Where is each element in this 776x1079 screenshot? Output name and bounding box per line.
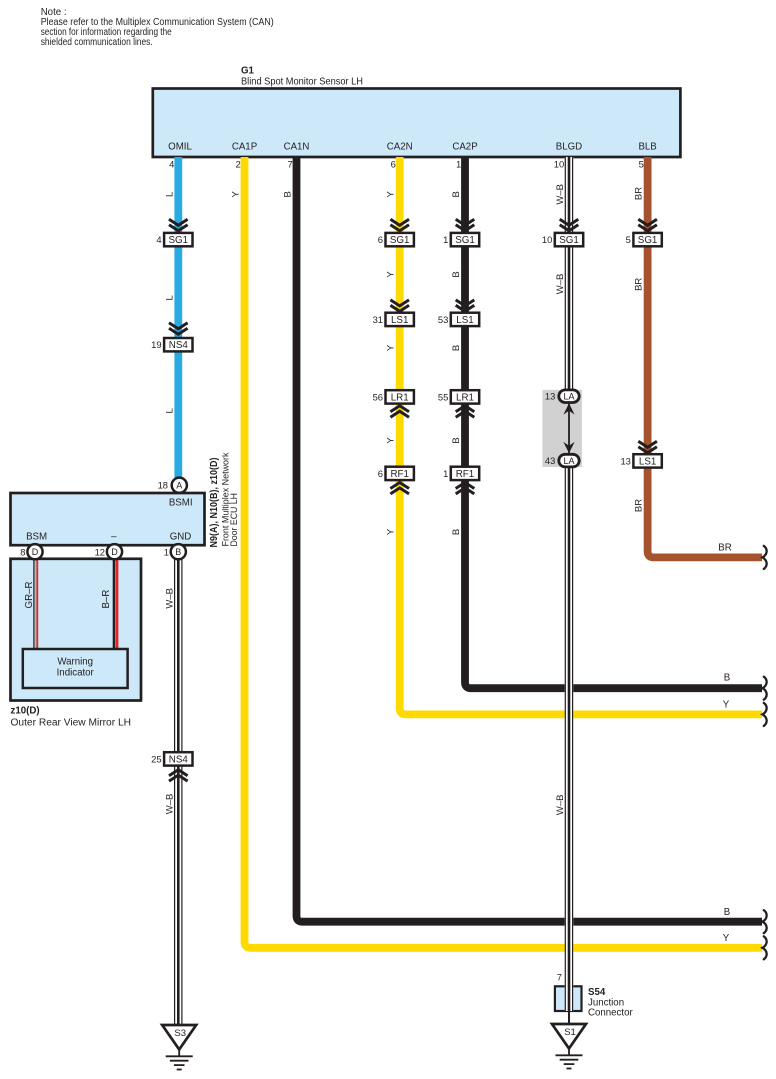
connector SG1 pin 4 (blue) [156, 233, 192, 246]
svg-text:LS1: LS1 [456, 315, 473, 326]
svg-text:B: B [451, 345, 462, 351]
svg-text:6: 6 [391, 159, 396, 170]
svg-text:SG1: SG1 [168, 235, 188, 246]
connector SG1 pin 1 (CA2P) [443, 233, 479, 246]
svg-text:19: 19 [151, 339, 161, 350]
svg-text:A: A [176, 480, 182, 490]
svg-text:BR: BR [634, 278, 645, 291]
arrow down CA2P to SG1 [456, 219, 475, 230]
svg-text:Y: Y [386, 271, 397, 278]
arrow down BLB to LS1 [638, 441, 657, 452]
shield block LA gray background [542, 390, 582, 467]
svg-text:–: – [111, 532, 117, 543]
arrow up CA2P below RF1 [456, 483, 475, 494]
svg-text:CA1N: CA1N [284, 142, 310, 153]
svg-text:B: B [451, 437, 462, 443]
svg-text:SG1: SG1 [638, 235, 658, 246]
arrow down CA2N to SG1 [390, 219, 409, 230]
svg-text:D: D [32, 547, 39, 557]
ECU box N9/N10/z10 Front Multiplex Network Door ECU LH [11, 493, 205, 545]
connector RF1 pin 6 (CA2N) [378, 467, 414, 480]
wire CA2N yellow (Y) vertical+horizontal to right edge [400, 157, 762, 714]
connector LS1 pin 31 (CA2N) [373, 313, 414, 326]
svg-text:13: 13 [545, 391, 555, 402]
svg-text:1: 1 [443, 234, 448, 245]
svg-text:56: 56 [373, 391, 383, 402]
svg-text:B: B [724, 673, 730, 684]
svg-text:OMIL: OMIL [168, 142, 192, 153]
svg-text:B: B [724, 907, 730, 918]
svg-text:6: 6 [378, 468, 383, 479]
svg-text:LS1: LS1 [639, 456, 656, 467]
svg-text:7: 7 [557, 972, 562, 983]
connector NS4 pin 19 (blue) [151, 338, 192, 351]
pin circle D (12) [107, 544, 122, 559]
svg-text:6: 6 [378, 234, 383, 245]
svg-text:GR–R: GR–R [24, 582, 35, 609]
svg-text:BR: BR [634, 187, 645, 200]
svg-text:SG1: SG1 [559, 235, 579, 246]
svg-text:31: 31 [373, 314, 383, 325]
ECU rotated caption N9(A), N10(B), z10(D) / Front Multiplex Network / Door ECU LH [209, 452, 239, 547]
ECU G1 box Blind Spot Monitor Sensor LH [153, 89, 681, 158]
ground S3 [162, 1025, 196, 1070]
connector LS1 pin 53 (CA2P) [438, 313, 479, 326]
svg-text:GND: GND [170, 532, 192, 543]
svg-text:CA2N: CA2N [387, 142, 413, 153]
off-page curl CA1P yellow [762, 936, 766, 959]
arrow up GND below NS4 [169, 770, 188, 781]
svg-text:5: 5 [626, 234, 631, 245]
svg-text:G1: G1 [241, 66, 255, 77]
svg-text:LA: LA [563, 391, 574, 401]
pin circle D (8) [27, 544, 42, 559]
svg-text:S3: S3 [174, 1028, 186, 1039]
pin circle B (1) GND [171, 544, 186, 559]
pin circle A (18) top of ECU box [172, 478, 187, 493]
svg-text:25: 25 [151, 753, 161, 764]
svg-text:Y: Y [386, 528, 397, 535]
svg-text:W–B: W–B [165, 588, 176, 609]
svg-text:W–B: W–B [555, 184, 566, 205]
svg-text:Indicator: Indicator [57, 668, 95, 679]
svg-text:LS1: LS1 [391, 315, 408, 326]
svg-text:RF1: RF1 [390, 469, 409, 480]
svg-text:CA1P: CA1P [232, 142, 257, 153]
connector SG1 pin 6 (CA2N) [378, 233, 414, 246]
off-page curl CA2N yellow [762, 703, 766, 726]
svg-text:8: 8 [20, 547, 25, 558]
svg-text:W–B: W–B [555, 274, 566, 295]
svg-text:W–B: W–B [165, 794, 176, 815]
svg-text:1: 1 [164, 547, 169, 558]
svg-text:CA2P: CA2P [452, 142, 477, 153]
svg-text:18: 18 [158, 480, 168, 491]
wire BLGD W-B lower segment through S54 [565, 467, 574, 1012]
shield inner thin wire between LA connectors [568, 402, 570, 453]
arrow up CA2N below LR1 [390, 406, 409, 417]
svg-text:Connector: Connector [588, 1008, 633, 1019]
wire OMIL blue (L) vertical [174, 157, 182, 479]
svg-text:B: B [175, 547, 181, 557]
svg-text:1: 1 [456, 159, 461, 170]
wire GND W-B upper segment [174, 560, 183, 753]
junction connector S54 box [555, 986, 582, 1011]
svg-text:53: 53 [438, 314, 448, 325]
svg-text:Y: Y [386, 437, 397, 444]
connector LR1 pin 55 (CA2P) [438, 390, 479, 403]
svg-text:RF1: RF1 [456, 469, 475, 480]
svg-text:Y: Y [723, 699, 730, 710]
svg-text:N9(A), N10(B), z10(D): N9(A), N10(B), z10(D) [209, 458, 220, 548]
svg-text:S54: S54 [588, 987, 606, 998]
svg-text:BLB: BLB [638, 142, 656, 153]
svg-text:LR1: LR1 [391, 392, 409, 403]
svg-text:Outer Rear View Mirror LH: Outer Rear View Mirror LH [11, 718, 132, 729]
svg-text:W–B: W–B [555, 795, 566, 816]
svg-text:43: 43 [545, 455, 555, 466]
arrow down on OMIL wire 2 [169, 323, 188, 334]
svg-text:BSMI: BSMI [169, 497, 193, 508]
connector LR1 pin 56 (CA2N) [373, 390, 414, 403]
svg-text:2: 2 [235, 159, 240, 170]
svg-text:10: 10 [542, 234, 552, 245]
wire CA1N black (B) vertical+horizontal to right edge [297, 157, 763, 922]
svg-text:Warning: Warning [57, 657, 93, 668]
svg-text:B–R: B–R [101, 590, 112, 609]
svg-text:55: 55 [438, 391, 448, 402]
svg-text:B: B [451, 529, 462, 535]
off-page curl CA1N black [762, 910, 766, 933]
svg-text:LR1: LR1 [456, 392, 474, 403]
svg-text:L: L [164, 295, 175, 300]
wire GND W-B lower segment [174, 766, 183, 1026]
wire CA1P yellow (Y) vertical+horizontal to right edge [245, 157, 763, 948]
svg-text:BLGD: BLGD [556, 142, 582, 153]
arrow down CA2N to LS1 [390, 300, 409, 311]
arrow down on OMIL wire [169, 219, 188, 230]
svg-text:Y: Y [386, 344, 397, 351]
svg-text:Note :Please refer to the Mult: Note :Please refer to the Multiplex Comm… [41, 7, 274, 48]
svg-text:1: 1 [443, 468, 448, 479]
svg-text:Y: Y [230, 190, 241, 197]
component box z10(D) Outer Rear View Mirror LH [11, 559, 142, 701]
svg-text:B: B [451, 271, 462, 277]
arrow up CA2N below RF1 [390, 483, 409, 494]
svg-text:13: 13 [620, 455, 630, 466]
ground S1 [552, 1024, 586, 1069]
svg-text:5: 5 [639, 159, 644, 170]
arrow down CA2P to LS1 [456, 300, 475, 311]
wire from S54 to ground S1 [568, 1011, 570, 1025]
svg-text:BR: BR [718, 542, 731, 553]
wire BLB brown (BR) vertical+horizontal to right edge [648, 157, 762, 557]
svg-text:4: 4 [169, 159, 174, 170]
connector LS1 pin 13 (BLB) [620, 454, 661, 467]
arrow down BLB to SG1 [638, 219, 657, 230]
svg-text:z10(D): z10(D) [11, 706, 40, 717]
shield arrowhead up [563, 403, 574, 414]
svg-text:SG1: SG1 [455, 235, 475, 246]
shield connector LA pin 13 oval [545, 390, 579, 403]
warning indicator box [23, 649, 128, 688]
shield arrowhead down [563, 442, 574, 453]
svg-text:7: 7 [287, 159, 292, 170]
svg-text:L: L [164, 192, 175, 197]
svg-text:LA: LA [563, 456, 574, 466]
svg-text:NS4: NS4 [169, 340, 189, 351]
svg-text:Door ECU LH: Door ECU LH [228, 493, 239, 547]
svg-text:Y: Y [386, 190, 397, 197]
svg-text:D: D [111, 547, 118, 557]
wire CA2P black (B) vertical+horizontal to right edge [465, 157, 762, 688]
svg-text:10: 10 [554, 159, 564, 170]
arrow up CA2P below LR1 [456, 406, 475, 417]
wire GR-R inside mirror (gray-red) [33, 560, 38, 649]
off-page curl BLB brown [762, 546, 766, 569]
svg-text:L: L [164, 408, 175, 413]
svg-text:12: 12 [95, 547, 105, 558]
svg-text:S1: S1 [564, 1027, 576, 1038]
svg-text:Blind Spot Monitor Sensor LH: Blind Spot Monitor Sensor LH [241, 77, 363, 88]
wire BLGD W-B upper segment [565, 157, 574, 391]
svg-text:Y: Y [723, 933, 730, 944]
svg-text:NS4: NS4 [169, 754, 189, 765]
connector NS4 pin 25 (GND) [151, 752, 192, 765]
shield connector LA pin 43 oval [545, 454, 579, 467]
connector SG1 pin 5 (BLB) [626, 233, 662, 246]
svg-text:B: B [451, 191, 462, 197]
connector RF1 pin 1 (CA2P) [443, 467, 479, 480]
connector SG1 pin 10 (BLGD) [542, 233, 583, 246]
wire B-R inside mirror (black-red) [113, 560, 119, 649]
svg-text:B: B [282, 191, 293, 197]
svg-text:BR: BR [634, 499, 645, 512]
off-page curl CA2P black [762, 677, 766, 700]
arrow down BLGD to SG1 [560, 219, 579, 230]
svg-text:SG1: SG1 [390, 235, 410, 246]
svg-text:4: 4 [156, 234, 161, 245]
svg-text:BSM: BSM [26, 532, 47, 543]
